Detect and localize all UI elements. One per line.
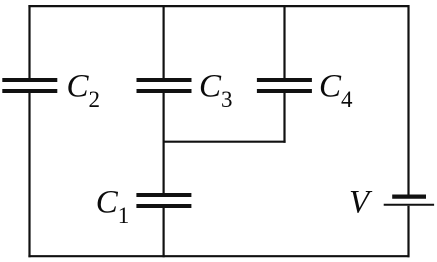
wire: junction horizontal (C3/C1 branch to C4 branch): [163, 141, 286, 143]
capacitor C3 plates: [137, 80, 192, 91]
capacitor C2 plates: [2, 80, 57, 91]
wire: middle branch lower (C1 to bottom rail): [163, 208, 165, 258]
wire: C4 branch upper (top rail to C4): [283, 6, 285, 78]
battery V plates: [384, 197, 434, 205]
wire: middle branch upper (top rail to C3): [163, 6, 165, 78]
wire: left border upper (to C2): [28, 5, 30, 79]
wire: C4 branch lower (C4 to junction): [283, 93, 285, 143]
wire: middle branch center (C3 to C1): [163, 93, 165, 194]
capacitor C4 plates: [257, 80, 312, 91]
capacitor C1 plates: [136, 195, 191, 206]
wire: left border lower (from C2): [28, 93, 30, 257]
wire: bottom rail: [28, 255, 409, 257]
wire: right border lower (from battery): [407, 206, 409, 257]
wire: top rail: [28, 5, 409, 7]
wire: right border upper (to battery): [407, 5, 409, 195]
